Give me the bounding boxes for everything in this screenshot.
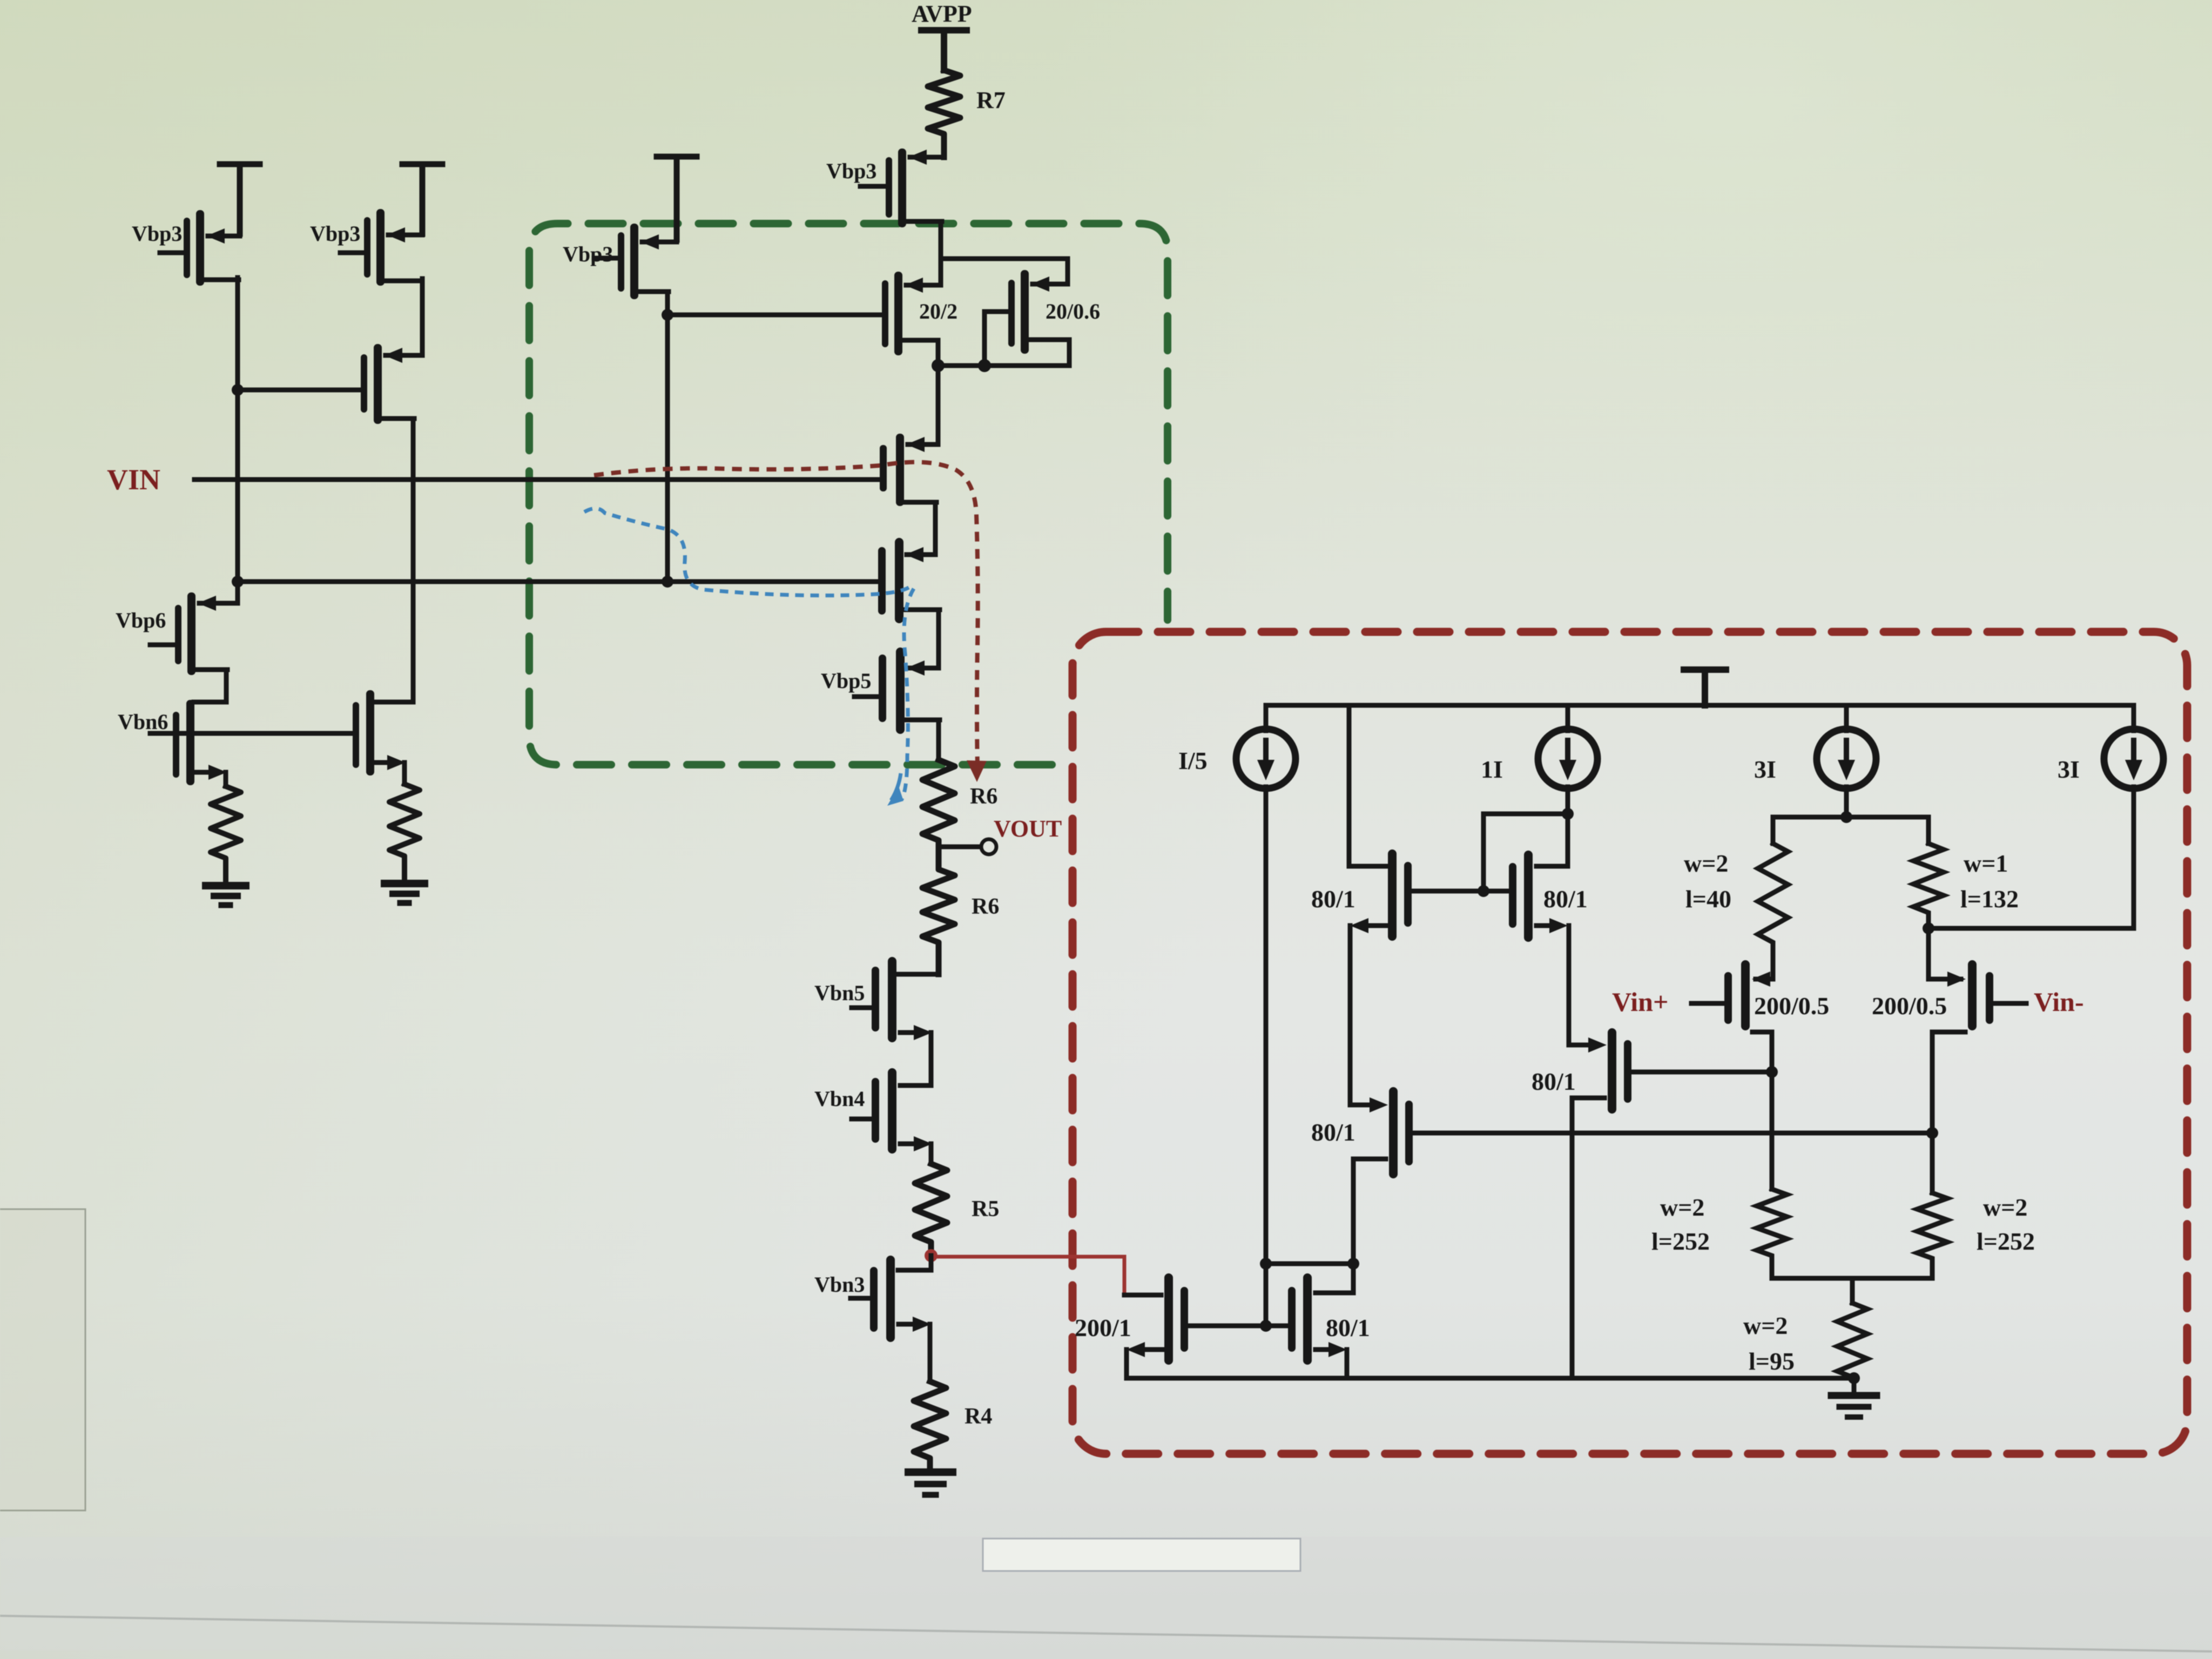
node A junction dot (gate of M3) (232, 384, 244, 396)
svg-text:3I: 3I (2058, 756, 2080, 783)
svg-text:R6: R6 (972, 894, 999, 919)
wire M13 drain to R6a (936, 720, 941, 760)
svg-text:Vbp3: Vbp3 (826, 159, 876, 183)
annotation brown arrowhead (967, 760, 987, 782)
wire M16 source to R4 (928, 1324, 933, 1381)
wire M4 source to resistor (402, 763, 407, 784)
wire M2 drain to M3 source (386, 279, 422, 355)
svg-text:R7: R7 (976, 87, 1006, 113)
wire M1 drain to node A (235, 278, 240, 583)
node I junction dot (second stage gate node) (1766, 1066, 1778, 1078)
wire Vin- gate stub (1993, 1001, 2026, 1006)
svg-text:Vbp6: Vbp6 (116, 608, 166, 632)
node G junction dot (M19 source node) (1347, 1258, 1359, 1270)
svg-text:VOUT: VOUT (994, 815, 1062, 842)
wire node C to M16 drain (898, 1256, 931, 1270)
current source 3I first (1817, 729, 1876, 788)
wire amplifier ground rail (1127, 1376, 1854, 1381)
svg-text:Vbn6: Vbn6 (118, 710, 168, 734)
desktop window rectangle bottom-left (0, 1209, 85, 1510)
supply bar (amplifier) (1684, 670, 1726, 705)
wire M11 drain to M12 source (907, 502, 935, 555)
svg-text:Vin-: Vin- (2034, 987, 2084, 1017)
resistor R6 lower (922, 847, 955, 974)
wire diode tie 1I node to gate bus (1483, 814, 1568, 890)
wire VIN net (194, 477, 880, 482)
resistor R6 upper (922, 760, 955, 847)
wire node L to 3I-2 tail (1928, 926, 2134, 931)
transistor M13 Vbp5 PMOS (879, 648, 940, 734)
node E junction dot (mirror gate bus) (1478, 885, 1489, 897)
wire M5 source from node A2 (235, 582, 240, 603)
node D junction dot (1I diode node) (1562, 808, 1574, 820)
svg-text:l=132: l=132 (1960, 885, 2019, 913)
screen lower band (0, 1537, 2212, 1650)
resistor RL4 w=1 l=132 (1913, 844, 1944, 928)
wire M19 gate bus to Vin- drain node (1413, 1131, 1932, 1136)
wire M7 drain to node B and 20/2 gate (667, 292, 882, 582)
annotation brown dashed loop arrow (594, 462, 978, 767)
transistor M1 Vbp3 (left mirror PMOS) (184, 210, 240, 286)
wire 1I stem and to diode node (1566, 705, 1570, 866)
transistor M9 20/2 PMOS (882, 272, 941, 355)
wire 3I-1 stem and to resistor node (1844, 705, 1849, 817)
transistor M15 Vbn4 NMOS (872, 1068, 932, 1154)
wire I/5 stem and tail down to mirror (1264, 705, 1269, 1326)
svg-text:AVPP: AVPP (912, 1, 972, 27)
wire rail down to M11 source (908, 366, 938, 444)
node B2 junction dot (pass gate bus) (662, 576, 673, 588)
wire rail to M17 drain (1347, 705, 1352, 866)
svg-text:I/5: I/5 (1178, 747, 1208, 774)
wire mirror gate bus (1413, 889, 1510, 894)
annotation blue arrowhead (887, 786, 903, 806)
wire bottom mirror gate bus (1188, 1324, 1292, 1328)
transistor M10 20/0.6 PMOS (1008, 270, 1069, 354)
svg-text:w=2: w=2 (1743, 1312, 1788, 1339)
svg-text:3I: 3I (1754, 756, 1776, 783)
resistor RL3 w=2 l=95 tail (1837, 1278, 1867, 1378)
wire M14 gate stub (852, 1006, 872, 1010)
node VOUT wire and terminal (939, 845, 981, 849)
wire M15 gate stub (852, 1117, 872, 1122)
resistor R7 (928, 70, 960, 157)
svg-text:80/1: 80/1 (1532, 1068, 1576, 1095)
wire Vin+ gate stub (1691, 1001, 1724, 1006)
svg-text:80/1: 80/1 (1311, 885, 1355, 913)
resistor R4 (914, 1381, 946, 1472)
wire gate bus node A2 to pass gate (238, 579, 881, 584)
wire Vbn6 gate bus (150, 731, 353, 736)
svg-text:R6: R6 (970, 784, 997, 809)
node A2 junction dot (source of M5) (232, 576, 244, 588)
wire M20 gate to diff drain node (1631, 1070, 1772, 1075)
transistor M23 200/0.5 Vin+ PMOS (1724, 960, 1773, 1072)
svg-text:Vbp3: Vbp3 (132, 221, 182, 246)
ground (amplifier) (1852, 1378, 1857, 1394)
screen bottom edge line (0, 1616, 2212, 1651)
svg-text:200/0.5: 200/0.5 (1754, 992, 1829, 1020)
wire 20/2 and 20/0.6 drain rail (938, 340, 1069, 366)
resistor R5 (915, 1164, 947, 1256)
junction dot drain rail left (932, 359, 945, 372)
svg-text:1I: 1I (1481, 756, 1503, 783)
supply bar M1 (220, 164, 260, 234)
taskbar search box (983, 1539, 1300, 1571)
resistor Rb1 (left leg) (211, 786, 241, 886)
wire M8 drain to 20/2 source and 20/0.6 branch (941, 221, 1068, 285)
svg-text:R5: R5 (972, 1197, 999, 1222)
transistor M5 Vbp6 PMOS (175, 592, 238, 675)
node L junction dot (Vin- source node) (1923, 922, 1934, 934)
wire M16 gate stub (851, 1296, 870, 1301)
transistor M12 pass PMOS (bus gate) (878, 538, 940, 623)
wire M13 gate stub (854, 694, 879, 699)
supply bar M2 (402, 164, 442, 234)
svg-text:l=252: l=252 (1977, 1228, 2035, 1255)
wire M6 source to resistor (224, 772, 228, 786)
wire M15 source to R5 (929, 1144, 934, 1164)
wire node L to Vin- source (1928, 928, 1961, 979)
node H junction dot (bottom mirror gate) (1260, 1320, 1272, 1332)
wire M18 source down to M20 drain (1567, 926, 1572, 1045)
wire M5 drain jog to M6 drain (194, 670, 226, 702)
resistor RL2 w=2 l=252 left (1757, 1072, 1787, 1278)
transistor M16 Vbn3 NMOS (870, 1256, 931, 1342)
svg-text:Vbp3: Vbp3 (310, 221, 360, 246)
transistor M22 80/1 (bottom mirror, gate left) (1288, 1264, 1353, 1378)
maroon dashed box (error amplifier) (1073, 632, 2187, 1454)
wire amplifier top rail (1266, 703, 2134, 708)
power rail AVPP (921, 30, 967, 70)
svg-text:20/2: 20/2 (919, 299, 957, 323)
wire M7 gate stub (594, 256, 618, 261)
green dashed box (output stage) (529, 224, 1168, 765)
transistor M24 200/0.5 Vin- PMOS (mirrored) (1932, 960, 1993, 1133)
svg-text:l=40: l=40 (1685, 885, 1731, 913)
svg-text:80/1: 80/1 (1543, 885, 1588, 913)
wire M1 gate stub (160, 251, 184, 255)
resistor Rb2 (right leg) (389, 784, 420, 884)
current source I/5 (1236, 729, 1296, 788)
wire M2 gate stub (340, 251, 364, 255)
svg-text:l=252: l=252 (1651, 1228, 1710, 1255)
svg-text:VIN: VIN (107, 463, 160, 496)
svg-text:Vin+: Vin+ (1612, 987, 1668, 1017)
transistor M7 Vbp3 (inside green box) (618, 224, 677, 299)
svg-text:Vbp3: Vbp3 (563, 242, 613, 266)
current source 3I second (2104, 729, 2163, 788)
transistor M11 pass PMOS (VIN gate) (880, 434, 936, 506)
svg-text:w=2: w=2 (1684, 849, 1728, 877)
transistor M17 80/1 (left mirror, gate right) (1349, 849, 1412, 941)
wire M18 drain up to node D (1566, 814, 1570, 866)
resistor RL1 w=2 l=40 (1758, 817, 1846, 977)
wire 3I-1 node to l=132 resistor (1846, 817, 1928, 844)
transistor M14 Vbn5 NMOS (872, 957, 939, 1042)
current source 1I (1538, 729, 1597, 788)
wire M17 source down to M19 drain (1348, 926, 1353, 1105)
node F junction dot (I/5 mirror node) (1260, 1258, 1272, 1270)
svg-text:Vbn5: Vbn5 (814, 981, 865, 1005)
svg-text:w=1: w=1 (1964, 849, 2008, 877)
wire 3I-2 stem and down to tail node (2132, 705, 2136, 927)
ground (right leg) (385, 880, 424, 887)
wire M5 gate stub (150, 643, 175, 648)
transistor M21 200/1 (gate right) (1124, 1273, 1188, 1378)
transistor M2 Vbp3 (right PMOS) (364, 209, 422, 286)
wire M8 gate stub (860, 184, 886, 189)
wire diff load bottom rail (1772, 1276, 1932, 1281)
node J junction dot (ground tap) (1848, 1372, 1860, 1384)
svg-text:w=2: w=2 (1660, 1193, 1704, 1221)
ground (R4) (908, 1468, 953, 1476)
transistor M20 80/1 (tail, gate right) (1569, 1028, 1631, 1378)
svg-text:l=95: l=95 (1749, 1347, 1795, 1375)
wire M10 gate tie (984, 312, 1008, 365)
transistor M3 cascode PMOS (361, 344, 414, 424)
supply bar M7 (green box Vbp3) (657, 157, 697, 240)
node K junction dot (3I-1 load node) (1840, 811, 1852, 823)
svg-text:20/0.6: 20/0.6 (1046, 299, 1100, 323)
svg-text:Vbn4: Vbn4 (814, 1087, 865, 1111)
node B junction dot (20/2 gate line) (662, 309, 673, 321)
node C junction dot (feedback tap, red) (925, 1249, 938, 1262)
transistor M19 80/1 (second stage, gate right) (1351, 1087, 1413, 1263)
svg-text:80/1: 80/1 (1326, 1314, 1370, 1341)
annotation blue dashed feedback arrow (584, 508, 914, 800)
svg-text:w=2: w=2 (1983, 1193, 2027, 1221)
svg-text:80/1: 80/1 (1311, 1118, 1355, 1146)
wire red feedback to amplifier (938, 1257, 1124, 1295)
transistor M8 Vbp3 (top PMOS) (886, 149, 944, 227)
wire mirror node horizontal (1266, 1262, 1353, 1266)
svg-text:R4: R4 (965, 1404, 992, 1429)
svg-text:200/0.5: 200/0.5 (1872, 992, 1947, 1020)
transistor M18 80/1 (diode, gate left) (1509, 851, 1568, 942)
wire M12 drain to M13 source (908, 610, 939, 668)
svg-text:Vbn3: Vbn3 (814, 1272, 865, 1297)
wire node A to M3 gate (238, 388, 361, 393)
transistor M6 Vbn6 NMOS (173, 700, 227, 785)
resistor RL5 w=2 l=252 right (1917, 1133, 1947, 1278)
transistor M4 NMOS (right leg) (353, 690, 406, 775)
ground (left leg) (206, 882, 246, 889)
wire M3 drain down to M4 (374, 419, 413, 702)
node M junction dot (Vin- drain node) (1926, 1127, 1938, 1139)
svg-text:200/1: 200/1 (1075, 1314, 1131, 1341)
svg-text:Vbp5: Vbp5 (821, 669, 871, 693)
wire M14 source to M15 drain (900, 1033, 931, 1085)
junction dot drain rail mid (978, 359, 991, 372)
